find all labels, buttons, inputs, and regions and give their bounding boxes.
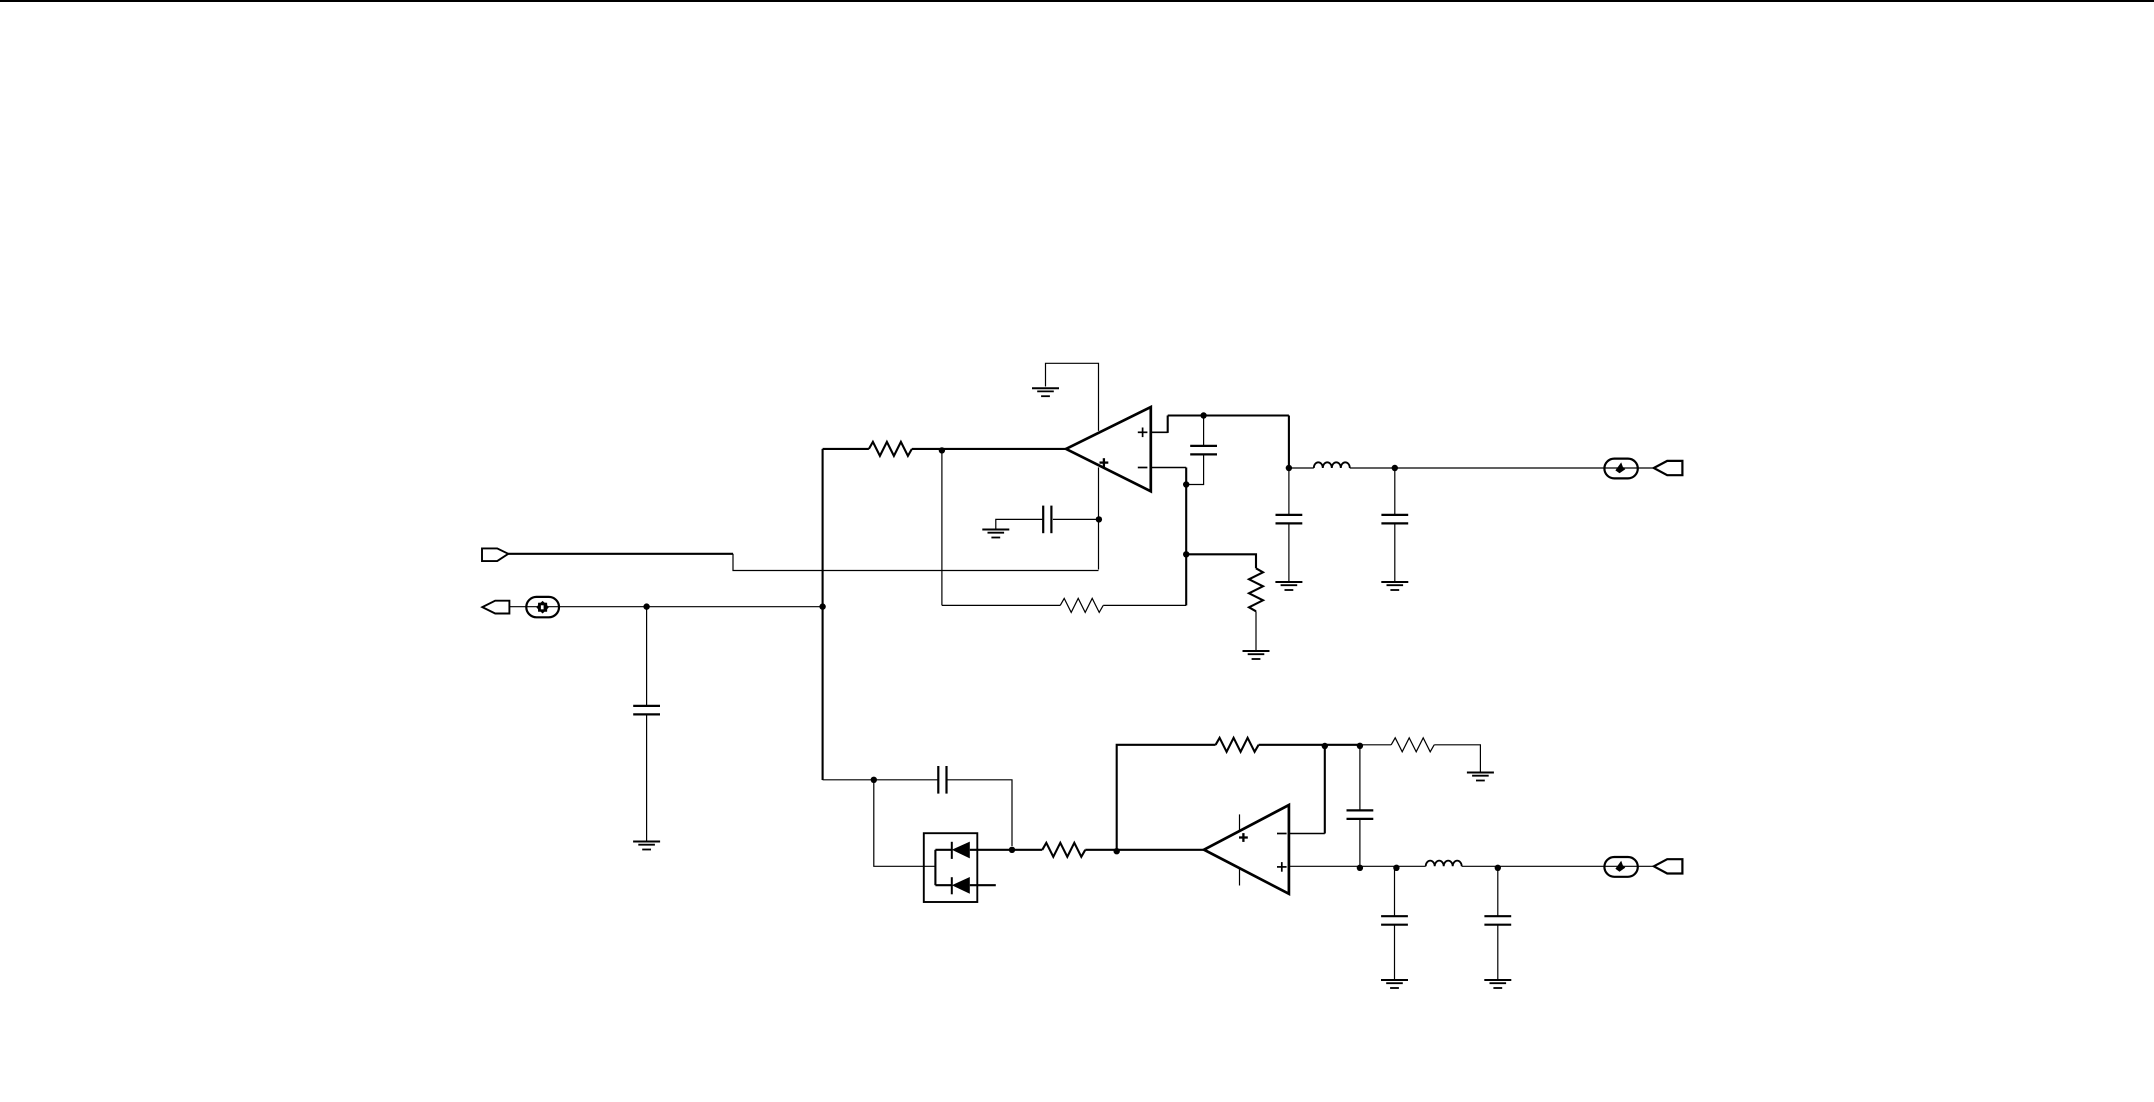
ground (C1) <box>982 530 1009 538</box>
U1 - input label <box>1138 467 1148 469</box>
diode D2 <box>952 877 970 894</box>
wire to R2 <box>942 604 1060 606</box>
wire inverting leg <box>1185 468 1187 606</box>
wire R2 to inverting leg <box>1103 604 1186 606</box>
connector J1 oval <box>1604 459 1637 479</box>
capacitor C4 <box>1381 515 1408 524</box>
wire C9 bottom lead <box>646 714 648 841</box>
capacitor C6 <box>1347 810 1374 819</box>
wire C6 top lead <box>1359 746 1361 811</box>
wire R5 to R6 <box>1259 744 1360 746</box>
wire L1 to connector J1 <box>1350 467 1654 469</box>
connector J3 oval <box>1604 857 1637 877</box>
U2 + input label <box>1277 862 1287 872</box>
wire to diode pack <box>874 780 936 867</box>
capacitor C1 <box>1043 506 1051 534</box>
resistor R2 <box>1060 598 1103 612</box>
junction (U2 output/feedback) <box>1114 848 1120 854</box>
resistor R6 <box>1391 738 1434 752</box>
resistor R1 <box>869 442 912 456</box>
wire C3 bottom lead <box>1288 523 1290 582</box>
wire U2 feedback riser <box>1117 745 1216 850</box>
wire U1 output to R1 <box>912 448 1066 450</box>
wire R6 to ground <box>1434 745 1480 773</box>
wire L2 to connector J3 <box>1462 865 1654 867</box>
wire C1 left lead to ground <box>996 519 1043 529</box>
junction (V+ bias node) <box>1096 516 1102 522</box>
wire C4 bottom lead <box>1394 523 1396 582</box>
junction (summing node) <box>1009 847 1015 853</box>
wire C8 top lead <box>1497 868 1499 916</box>
junction (R3 tap) <box>1183 551 1189 557</box>
net tag T2 <box>482 548 508 561</box>
junction (C7 node) <box>1393 865 1399 871</box>
wire to D1 cathode <box>935 849 951 851</box>
wire to L1 <box>1289 467 1314 469</box>
wire U1 V+ pin to bias node <box>1098 467 1100 569</box>
ground (R6) <box>1467 773 1494 781</box>
wire DZ1 cathode bus <box>934 850 936 885</box>
connector J2 glyph <box>536 601 549 614</box>
wire vertical bus <box>822 449 824 780</box>
junction (C6 bottom) <box>1357 865 1363 871</box>
wire to R4 <box>1012 849 1042 851</box>
ground (C7) <box>1381 980 1408 988</box>
junction (C8 node) <box>1495 865 1501 871</box>
wire top rail drop <box>1288 416 1290 469</box>
wire C6 bottom lead <box>1359 819 1361 868</box>
wire U2 - input riser <box>1324 746 1326 834</box>
wire C8 bottom lead <box>1497 925 1499 980</box>
ground (C9) <box>633 842 660 850</box>
U2 - input label <box>1277 833 1287 835</box>
wire T2 jog to bias node <box>733 554 1099 571</box>
capacitor C5 <box>938 766 946 794</box>
junction (C2 top) <box>1200 412 1206 418</box>
net tag T1 <box>1654 461 1683 475</box>
wire C2 top lead <box>1203 416 1205 446</box>
wire R3 to ground <box>1255 611 1257 651</box>
ground (R3) <box>1243 651 1270 659</box>
wire U1 + input stub <box>1151 431 1168 433</box>
resistor R4 <box>1042 843 1085 857</box>
wire C3 top lead <box>1288 468 1290 515</box>
wire bus to C5 <box>823 779 939 781</box>
wire T3 through J2 to bus <box>509 606 822 608</box>
connector J1 glyph <box>1615 462 1625 473</box>
wire top rail <box>1168 414 1289 416</box>
U2 V- power pin stub <box>1239 868 1241 885</box>
wire R1 to vertical bus <box>823 448 869 450</box>
junction (C6 top) <box>1357 743 1363 749</box>
U1 V+ power label <box>1100 458 1109 467</box>
net tag T4 <box>1654 859 1683 873</box>
wire to R6 <box>1360 744 1391 746</box>
op-amp U1 <box>1066 407 1151 491</box>
inductor L1 <box>1314 462 1350 468</box>
wire U1 - input stub <box>1151 467 1186 469</box>
diode pack DZ1 box <box>924 833 978 902</box>
wire U1 + stub riser <box>1167 416 1169 433</box>
capacitor C7 <box>1381 916 1408 925</box>
junction (C9 tap) <box>643 603 649 609</box>
ground (U1 V- pin) <box>1032 388 1059 396</box>
wire to R3 <box>1186 554 1256 568</box>
resistor R3 <box>1249 568 1263 611</box>
wire C5 to summing node <box>947 780 1013 846</box>
junction (bus / input rail) <box>819 603 825 609</box>
wire C1 right lead <box>1053 518 1099 520</box>
capacitor C8 <box>1484 916 1511 925</box>
connector J2 oval <box>526 597 559 617</box>
junction (output/feedback) <box>939 447 945 453</box>
junction (inverting leg) <box>1322 743 1328 749</box>
capacitor C2 <box>1190 446 1217 455</box>
ground (C8) <box>1484 980 1511 988</box>
wire C7 bottom lead <box>1394 925 1396 980</box>
wire C9 top lead <box>646 607 648 706</box>
wire C4 top lead <box>1394 468 1396 515</box>
wire U2 - input stub <box>1289 833 1325 835</box>
capacitor C9 <box>633 706 660 715</box>
junction (C5 / diode split) <box>871 777 877 783</box>
wire D2 anode stub <box>970 884 996 886</box>
wire U2 + input rail <box>1289 865 1426 867</box>
op-amp U2 <box>1204 805 1289 894</box>
wire C2 bottom lead <box>1186 454 1203 484</box>
diode D1 <box>952 842 970 859</box>
ground (C3) <box>1275 582 1302 590</box>
junction (C3 node) <box>1286 465 1292 471</box>
U2 V+ power pin stub <box>1239 814 1241 830</box>
wire from ground to U1 V- power pin <box>1046 363 1099 431</box>
resistor R5 <box>1216 738 1259 752</box>
U1 + input label <box>1138 428 1148 438</box>
capacitor C3 <box>1276 515 1303 524</box>
junction (C2 bottom) <box>1183 481 1189 487</box>
connector J3 glyph <box>1615 861 1625 872</box>
wire D1 anode out <box>970 849 1012 851</box>
wire R4 to U2 output <box>1085 849 1204 851</box>
wire from tag T2 <box>508 553 733 555</box>
junction (C4 node) <box>1392 465 1398 471</box>
wire to D2 cathode <box>935 884 951 886</box>
ground (C4) <box>1381 582 1408 590</box>
wire feedback drop <box>941 450 943 605</box>
net tag T3 <box>482 601 509 614</box>
wire C7 top lead <box>1394 869 1396 917</box>
inductor L2 <box>1426 861 1462 867</box>
U2 V+ power label <box>1239 833 1248 842</box>
